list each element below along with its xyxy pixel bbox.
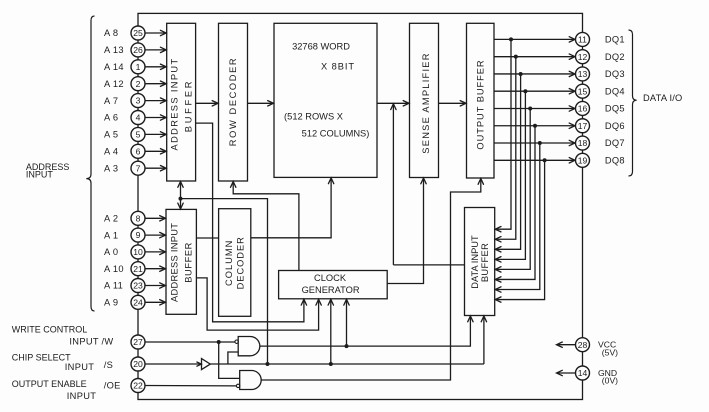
gate G1 write control NAND [235,337,260,356]
wire lower address buffer to clock generator input 2 [196,278,321,330]
svg-text:ADDRESS INPUT: ADDRESS INPUT [169,58,179,151]
pin 15 data I/O DQ4 [494,84,625,98]
wire DQ2 feedback to data input buffer [495,57,516,242]
svg-text:22: 22 [133,381,143,391]
svg-text:12: 12 [578,52,588,62]
chip boundary [138,13,583,399]
pin 6 address input A 4 [104,144,166,158]
pin 24 address input A 9 [104,295,166,309]
wire DQ4 feedback to data input buffer [495,91,525,262]
junction node /S to clock generator [329,362,333,366]
svg-text:/S: /S [104,360,113,370]
wire /W from pin 27 to gate G1 [145,341,235,343]
pin 5 address input A 5 [104,127,166,141]
svg-text:DATA INPUT: DATA INPUT [470,235,480,289]
svg-text:27: 27 [133,337,143,347]
svg-text:20: 20 [133,359,143,369]
svg-text:DQ6: DQ6 [605,121,625,131]
wire address buffer interconnect (double arrow) [178,182,183,209]
svg-text:28: 28 [578,340,588,350]
svg-text:CHIP SELECT: CHIP SELECT [12,352,71,362]
svg-text:DQ4: DQ4 [605,86,625,96]
svg-text:DQ5: DQ5 [605,104,625,114]
junction node DQ7 [538,141,542,145]
pin 18 data I/O DQ7 [494,136,625,150]
svg-text:14: 14 [578,368,588,378]
pin 21 address input A 10 [104,262,166,276]
label CHIP SELECT INPUT /S [12,352,113,372]
wire DQ1 feedback to data input buffer [495,39,511,232]
pin 23 address input A 11 [104,279,166,293]
svg-text:SENSE AMPLIFIER: SENSE AMPLIFIER [421,52,431,153]
svg-text:DATA I/O: DATA I/O [643,93,682,103]
svg-text:X 8BIT: X 8BIT [321,62,355,72]
brace data I/O group [629,30,637,176]
pin 1 address input A 14 [104,60,166,74]
block U1 address input buffer (upper) [167,23,196,181]
svg-text:A 3: A 3 [104,163,118,173]
junction node on chip select line at x267 [266,362,270,366]
wire DQ3 feedback to data input buffer [495,74,520,252]
block U4 sense amplifier [410,23,439,177]
svg-text:24: 24 [133,297,143,307]
gate G2 output enable NAND [236,371,261,390]
svg-text:6: 6 [136,146,141,156]
svg-text:26: 26 [133,45,143,55]
label WRITE CONTROL INPUT /W [12,325,114,347]
svg-text:/OE: /OE [104,381,121,391]
svg-text:A 7: A 7 [104,96,118,106]
svg-text:A 13: A 13 [104,45,124,55]
svg-text:DQ7: DQ7 [605,138,625,148]
svg-text:INPUT: INPUT [67,391,96,401]
svg-text:ROW DECODER: ROW DECODER [228,57,238,146]
wire data input buffer to sense amplifier input line [391,104,465,265]
pin 25 address input A 8 [104,26,166,40]
pin 14 GND [557,366,619,386]
wire clock generator to sense amplifier [387,178,426,284]
wire buffered /S to data input buffer [481,316,486,364]
wire gate G1 output to data input buffer [260,316,473,346]
svg-text:19: 19 [578,155,588,165]
wire buffer interconnect to chip select line [181,199,268,364]
junction node DQ6 [533,124,537,128]
pin 2 address input A 12 [104,77,166,91]
wire DQ8 feedback to data input buffer [495,160,544,302]
svg-text:(5V): (5V) [602,347,618,357]
block U3 memory cell array 32768 word x 8bit [274,23,377,177]
pin 22 output enable input /OE [131,379,145,393]
wire DQ6 feedback to data input buffer [495,126,535,282]
svg-text:DQ2: DQ2 [605,52,625,62]
block U8 clock generator [279,271,388,299]
svg-text:25: 25 [133,28,143,38]
wire column decoder to memory array [251,178,334,238]
pin 7 address input A 3 [104,161,166,175]
svg-text:A 5: A 5 [104,130,118,140]
block U6 address input buffer (lower) [166,209,196,314]
svg-text:10: 10 [133,247,143,257]
wire row decoder to memory array [248,101,274,106]
wire gate G2 output to output buffer enable [261,179,483,381]
svg-text:21: 21 [133,264,143,274]
svg-text:ADDRESS INPUT: ADDRESS INPUT [169,223,179,302]
svg-text:A 9: A 9 [104,298,118,308]
svg-text:OUTPUT ENABLE: OUTPUT ENABLE [12,379,87,389]
wire lower address buffer to column decoder [196,237,218,239]
wire /OE from pin 22 to gate G2 [145,385,236,387]
pin 17 data I/O DQ6 [494,119,625,133]
svg-text:A 4: A 4 [104,147,118,157]
svg-text:DQ8: DQ8 [605,155,625,165]
buffer amplifier on chip select line [197,359,210,370]
wire memory array to sense amplifier [377,101,409,106]
pin 8 address input A 2 [104,211,166,225]
junction node G1 output to clock generator [345,344,349,348]
pin 11 data I/O DQ1 [494,32,625,46]
block U9 data input buffer [465,208,495,316]
wire buffered /S line [210,363,484,365]
svg-text:INPUT: INPUT [65,362,94,372]
svg-text:1: 1 [136,62,141,72]
svg-text:8: 8 [136,213,141,223]
svg-text:5: 5 [136,130,141,140]
pin 27 write control input /W [131,335,145,349]
pin 26 address input A 13 [104,43,166,57]
svg-text:(512 ROWS X: (512 ROWS X [284,112,343,122]
svg-text:DQ3: DQ3 [605,69,625,79]
svg-text:CLOCK: CLOCK [314,273,347,283]
block U5 output buffer [467,23,495,178]
svg-text:A 8: A 8 [104,28,118,38]
svg-text:WRITE CONTROL: WRITE CONTROL [12,325,88,335]
junction node DQ5 [528,106,532,110]
svg-text:BUFFER: BUFFER [183,79,193,132]
svg-text:A 0: A 0 [104,247,118,257]
svg-text:15: 15 [578,86,588,96]
svg-text:BUFFER: BUFFER [480,243,490,282]
svg-text:(0V): (0V) [602,376,618,386]
svg-text:BUFFER: BUFFER [183,242,193,283]
wire /S branch to gate G1 [228,352,238,364]
svg-text:GENERATOR: GENERATOR [302,285,360,295]
svg-text:INPUT /W: INPUT /W [69,337,113,347]
svg-text:512 COLUMNS): 512 COLUMNS) [302,129,370,139]
svg-text:A 1: A 1 [104,230,118,240]
svg-text:DQ1: DQ1 [605,35,625,45]
junction node DQ2 [514,55,518,59]
svg-text:4: 4 [136,113,141,123]
junction node DQ8 [543,158,547,162]
pin 20 chip select input /S [131,357,145,371]
label ADDRESS INPUT [26,162,70,180]
svg-text:13: 13 [578,69,588,79]
pin 4 address input A 6 [104,111,166,125]
wire sense amplifier to output buffer [439,101,467,106]
junction node on buffer interconnect [179,197,183,201]
pin 3 address input A 7 [104,94,166,108]
svg-text:3: 3 [136,96,141,106]
wire /S branch to clock generator input 3 [328,299,333,364]
pin 19 data I/O DQ8 [494,153,625,167]
pin 9 address input A 1 [104,228,166,242]
wire /S from pin 20 to buffer [145,363,202,365]
svg-text:23: 23 [133,281,143,291]
brace address input group [86,16,94,311]
junction node DQ1 [509,37,513,41]
svg-text:OUTPUT BUFFER: OUTPUT BUFFER [476,59,486,149]
pin 13 data I/O DQ3 [494,67,625,81]
wire DQ7 feedback to data input buffer [495,143,540,292]
wire G1 output branch to clock generator input 4 [344,299,349,346]
svg-text:17: 17 [578,121,588,131]
svg-text:A 11: A 11 [104,281,123,291]
svg-text:16: 16 [578,104,588,114]
svg-text:A 10: A 10 [104,264,124,274]
wire clock generator to row decoder [231,182,299,271]
svg-text:11: 11 [578,35,587,45]
svg-text:A 12: A 12 [104,79,124,89]
junction node on /W line [217,340,221,344]
junction node DQ4 [523,89,527,93]
svg-text:A 6: A 6 [104,113,118,123]
svg-text:2: 2 [136,79,141,89]
wire DQ5 feedback to data input buffer [495,108,530,272]
wire address input buffer to row decoder [196,101,218,106]
pin 12 data I/O DQ2 [494,50,625,64]
wire /W branch to gate G2 [219,342,240,378]
pin 10 address input A 0 [104,245,166,259]
svg-text:INPUT: INPUT [26,170,54,180]
svg-text:9: 9 [136,230,141,240]
wire address input buffer to clock generator input 1 [196,123,307,322]
svg-text:32768 WORD: 32768 WORD [292,42,350,52]
pin 16 data I/O DQ5 [494,101,625,115]
svg-text:A 2: A 2 [104,214,118,224]
svg-text:COLUMN: COLUMN [224,240,234,286]
junction node DQ3 [519,72,523,76]
pin 28 VCC [557,338,619,358]
block U7 column decoder [219,209,251,317]
svg-text:A 14: A 14 [104,62,124,72]
svg-text:DECODER: DECODER [236,236,246,289]
label OUTPUT ENABLE INPUT /OE [12,379,121,401]
block U2 row decoder [219,23,248,181]
svg-text:7: 7 [136,163,141,173]
svg-text:18: 18 [578,138,588,148]
